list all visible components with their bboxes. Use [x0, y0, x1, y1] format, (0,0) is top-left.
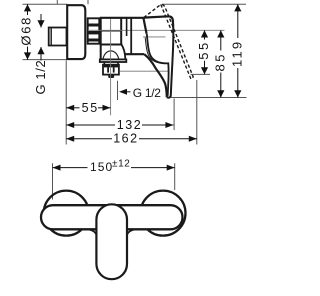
outlet neck — [103, 62, 105, 65]
body bar (front) — [41, 205, 183, 229]
lever inner curve — [147, 34, 169, 96]
wire: cropped extension tick top x57 — [56, 0, 58, 4]
inlet nipple G1/2 — [49, 28, 67, 46]
svg-text:150: 150 — [90, 160, 113, 174]
wire: nipple cap line — [50, 28, 52, 46]
body block — [100, 17, 144, 19]
wire: axis thin line y30.3 — [89, 29, 225, 31]
wire: bottom ref line y97.5 — [171, 97, 247, 99]
label G 1/2 center + leader arrow — [117, 81, 119, 100]
dimension 162 horizontal — [66, 138, 197, 140]
svg-text:55: 55 — [82, 101, 99, 115]
dimension 55 horizontal — [66, 107, 110, 109]
wire: pivot thin line y36.9 — [143, 36, 166, 38]
svg-text:55: 55 — [196, 40, 211, 59]
wire: outlet centerline — [110, 19, 112, 115]
wire: left wall extension line x66 — [65, 61, 67, 145]
dashed lever raised: cap edge — [144, 5, 161, 18]
svg-text:Ø68: Ø68 — [19, 16, 34, 46]
wire: 150 ext right — [174, 163, 176, 190]
lever middle thin curve — [145, 38, 163, 64]
outlet nub — [108, 75, 114, 78]
dimension 132 horizontal — [66, 124, 173, 126]
lever underside curve — [144, 54, 167, 97]
dimension 85 right vertical — [220, 30, 222, 97]
lever underside horizontal — [126, 53, 145, 55]
lever handle (front) — [96, 204, 127, 279]
wire: 150 ext left — [52, 163, 54, 199]
svg-text:85: 85 — [213, 52, 228, 71]
svg-text:132: 132 — [117, 118, 142, 132]
outlet hose nut — [103, 65, 119, 75]
union nut — [88, 18, 100, 43]
body mid line (dark over body) — [100, 30, 121, 32]
svg-text:162: 162 — [113, 132, 138, 146]
wire: bottom extension line for Ø68 — [23, 59, 67, 61]
lever neck slant — [143, 18, 146, 34]
escutcheon (side view) — [67, 5, 85, 59]
dimension G1/2 left vertical line + arrows — [40, 14, 42, 61]
body bottom edge — [100, 44, 122, 46]
svg-text:±12: ±12 — [112, 159, 130, 170]
wire: thin line y71.2 — [120, 70, 169, 72]
wire: top extension line right (119 top) — [162, 3, 246, 5]
handle cap top — [143, 16, 173, 27]
dimension 119 right vertical — [237, 4, 239, 97]
wire: 162 right ext x196.8 — [196, 80, 198, 145]
dashed lever raised: upper edge — [161, 4, 193, 79]
escutcheon circle right (front) — [141, 191, 186, 236]
svg-text:G 1/2: G 1/2 — [33, 60, 48, 95]
dimension 150±12 — [53, 167, 175, 169]
wire: cropped extension tick top x88 — [87, 0, 89, 4]
dimension 55 right vertical — [204, 30, 206, 74]
lever fillet right — [127, 229, 135, 234]
dimension Ø68 vertical line + arrows — [27, 4, 29, 59]
svg-text:119: 119 — [230, 40, 245, 67]
svg-text:G 1/2: G 1/2 — [133, 86, 161, 100]
body bottom flange — [100, 59, 127, 62]
cartridge collar — [126, 19, 128, 37]
wire: top extension line left (Ø68 top) — [23, 3, 68, 5]
lever fillet left — [88, 229, 96, 234]
wire: 132 right ext x174 — [173, 99, 175, 131]
handle front edge — [167, 27, 174, 98]
body outlet arch — [103, 51, 119, 60]
wire: ext line y74.4 (55 bottom) — [191, 73, 211, 75]
escutcheon circle left (front) — [44, 191, 89, 236]
